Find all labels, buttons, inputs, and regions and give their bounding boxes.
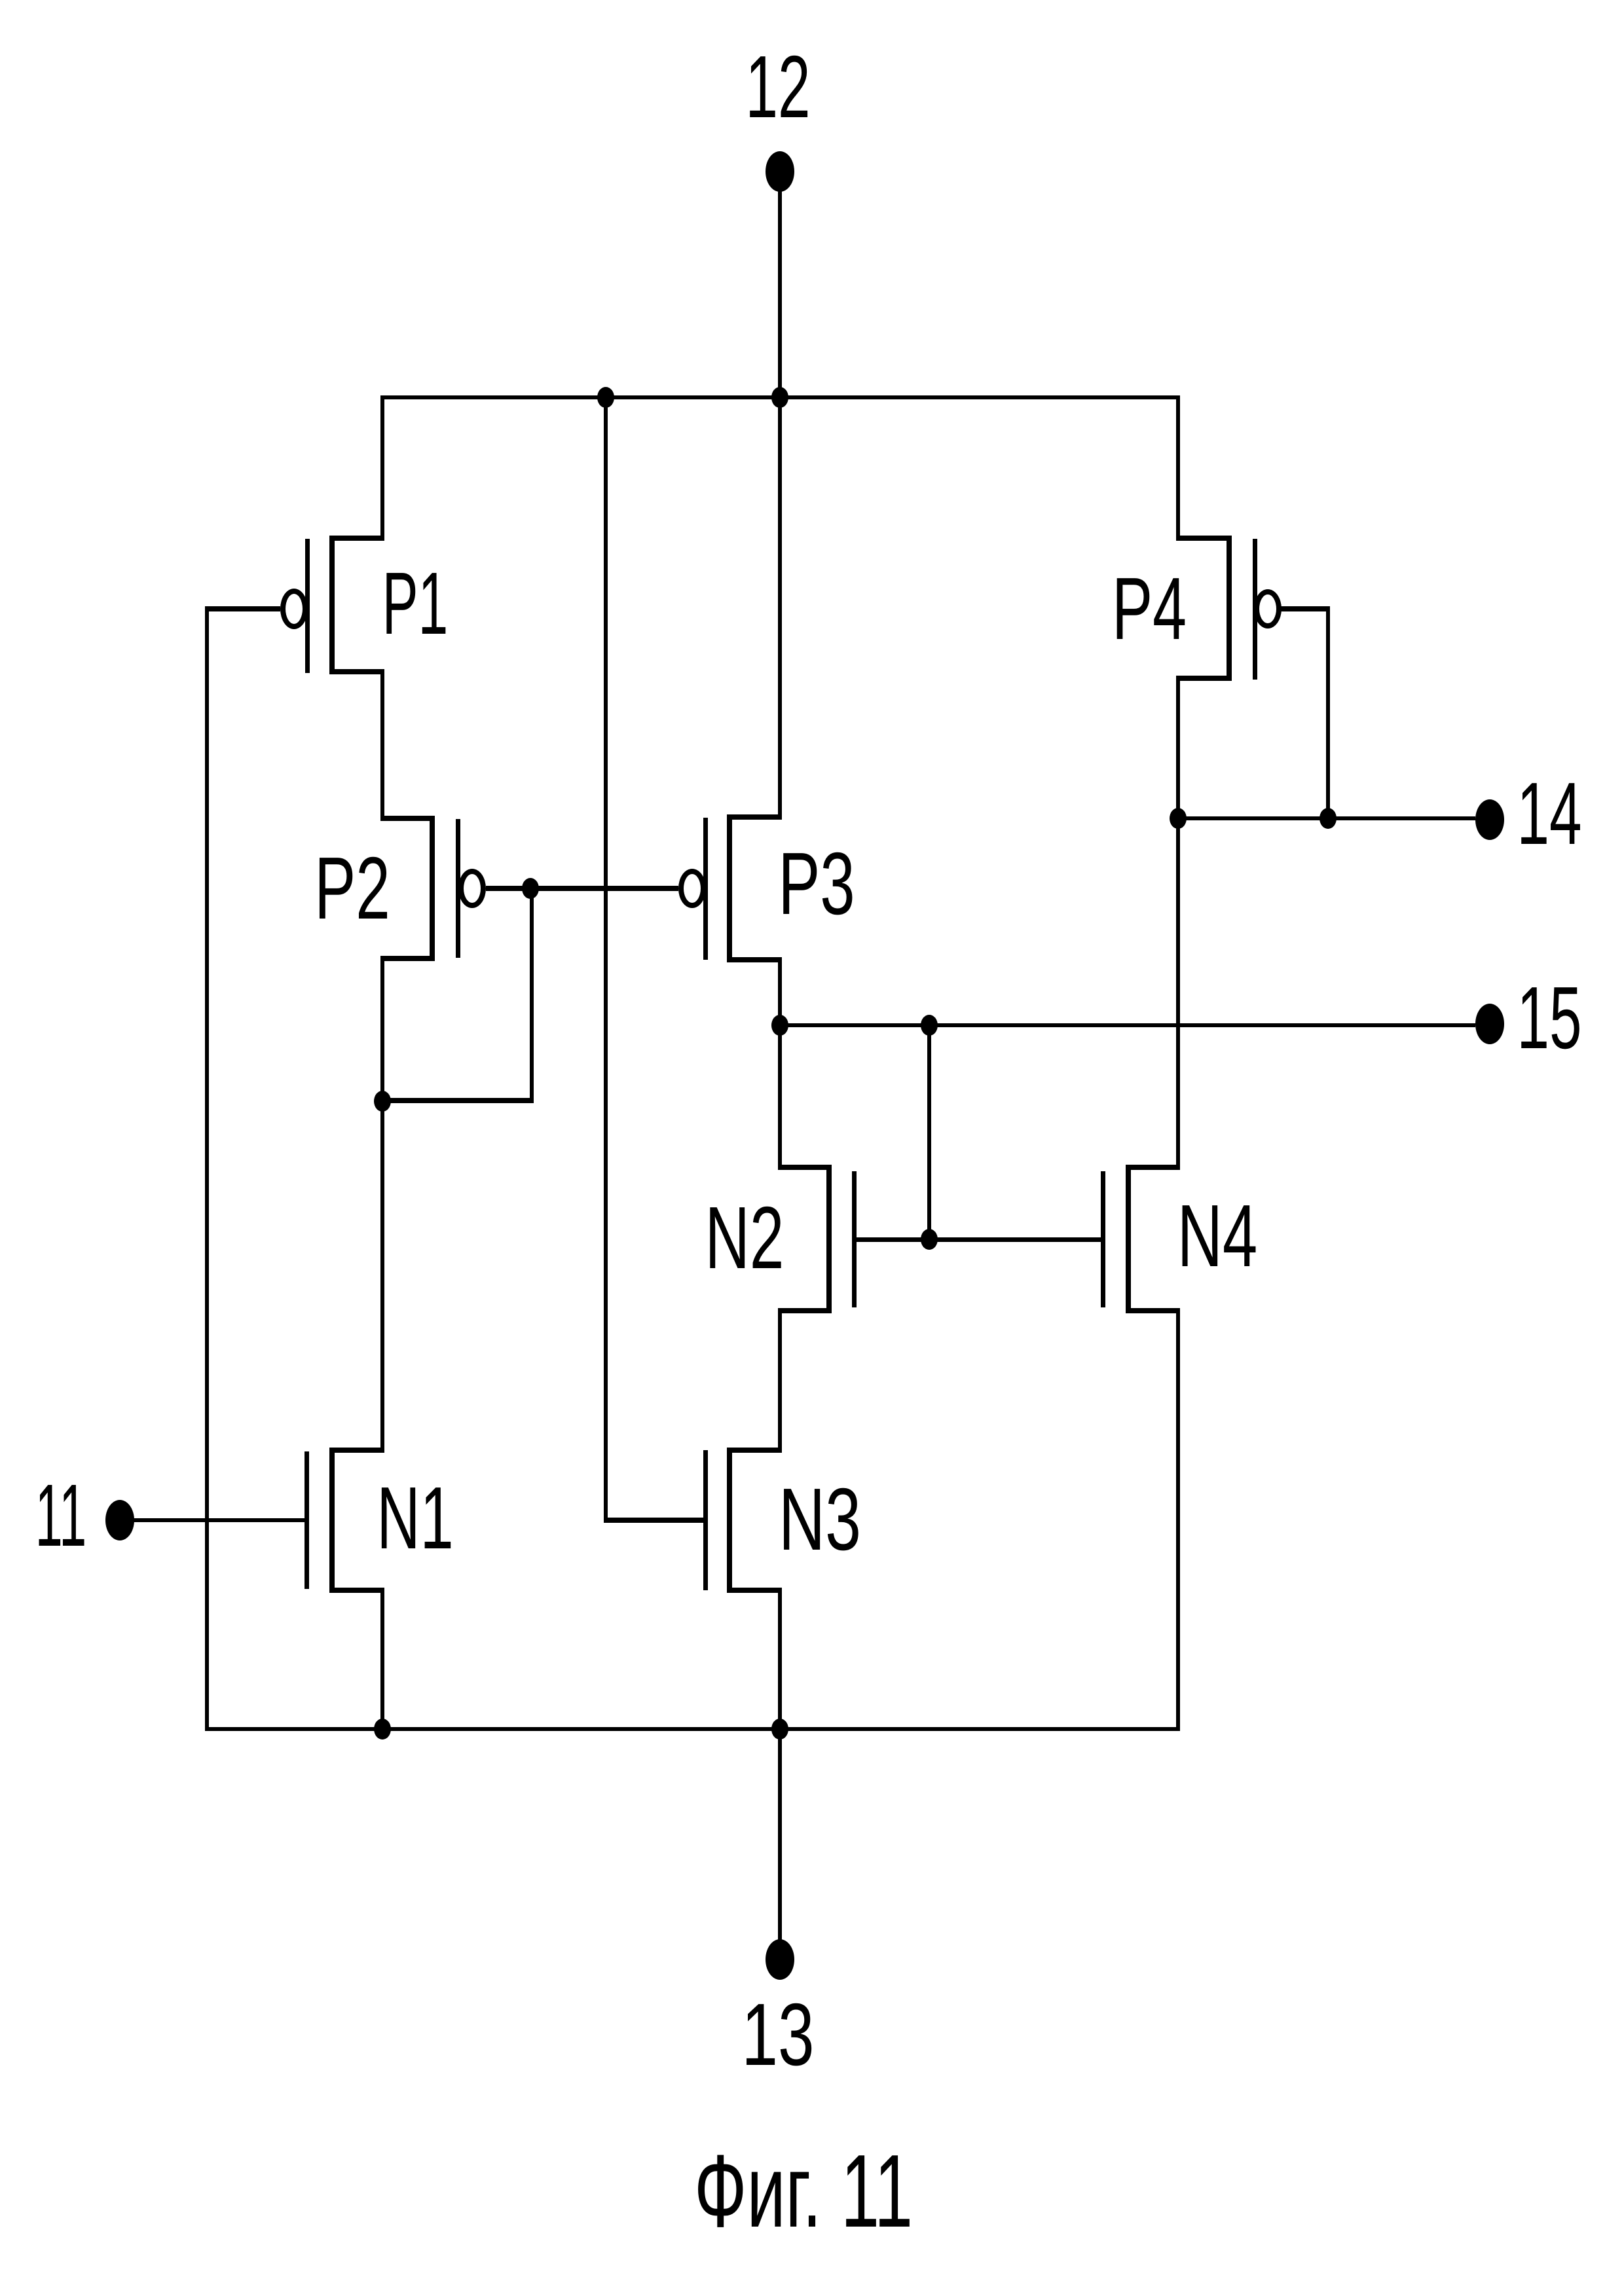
wire P3 drain to N2 drain (778, 1023, 782, 1169)
transistor N1 (329, 1448, 335, 1593)
wire N2 source to N3 drain (778, 1308, 782, 1453)
P2 label (314, 844, 390, 932)
wire 11 to N1 gate (120, 1518, 307, 1522)
wire left outer vertical (205, 607, 209, 1731)
wire P1 drain to P2 source (380, 669, 384, 818)
node junction P3 drain / 15 net (771, 1015, 788, 1036)
wire bottom rail (205, 1727, 1180, 1731)
P1 label (382, 559, 449, 647)
node junction P2/N1 drain (374, 1091, 391, 1112)
P4 label (1112, 564, 1187, 653)
wire P1 gate lead (205, 606, 280, 611)
N1 label (377, 1474, 453, 1562)
wire to N3 gate (604, 1518, 705, 1523)
terminal 13 dot (766, 1939, 794, 1980)
wire N2-N4 gate wire (855, 1237, 1103, 1242)
node junction top rail x1191 (771, 387, 788, 408)
wire N4 source to rail corner (1176, 1308, 1180, 1731)
wire 12 stem (778, 172, 782, 399)
wire rail to P3 source (778, 395, 782, 820)
transistor N4 (1126, 1165, 1131, 1313)
node junction gate wire (921, 1229, 938, 1250)
node 13 label (741, 1990, 814, 2079)
wire node down to N1 drain (380, 1099, 384, 1450)
transistor N2 (826, 1165, 832, 1313)
terminal 14 dot (1475, 799, 1504, 840)
node junction gate net (522, 878, 539, 899)
node 11 label (35, 1471, 86, 1559)
N4 label (1177, 1192, 1258, 1280)
N3 label (779, 1475, 861, 1563)
node junction rail x1191 (771, 1719, 788, 1740)
node junction rail x584 (374, 1719, 391, 1740)
wire 15 net (778, 1023, 1475, 1027)
wire rail to terminal 13 (778, 1727, 782, 1959)
wire long vertical x925 (604, 395, 608, 1522)
terminal 15 dot (1475, 1004, 1504, 1044)
wire P4 gate lead (1281, 606, 1330, 611)
node junction 14 net x2028 (1319, 808, 1337, 829)
node 15 label (1517, 974, 1581, 1062)
transistor N3 (727, 1448, 732, 1593)
node junction 14 net x1799 (1170, 808, 1187, 829)
wire 14 net (1176, 816, 1475, 820)
wire P2 drain down (380, 956, 384, 1103)
node 12 label (745, 43, 810, 131)
wire top rail (380, 395, 1180, 399)
wire N3 source to rail (778, 1588, 782, 1731)
node junction 15 net x1419 (921, 1015, 938, 1036)
wire P2 gate to P3 gate (486, 886, 678, 891)
caption Фиг. 11 (694, 2140, 913, 2243)
P3 label (778, 839, 855, 928)
terminal 12 dot (766, 151, 794, 192)
wire P3 drain down (778, 957, 782, 1027)
transistor P2 (430, 816, 435, 961)
N2 label (705, 1194, 784, 1282)
node junction top rail x925 (597, 387, 614, 408)
node 14 label (1517, 769, 1581, 858)
wire node to gate-net vertical (380, 1098, 534, 1103)
wire P4 drain down to 14 node (1176, 676, 1180, 820)
transistor P3 (727, 814, 732, 962)
wire N4 drain up to 14 node (1176, 818, 1180, 1170)
wire 15 net down to N2/N4 gates (927, 1023, 931, 1241)
wire rail to P1 source (380, 395, 384, 541)
wire rail corner to P4 source (1176, 395, 1180, 541)
wire P4 gate down to 14 net (1326, 607, 1330, 820)
transistor P1 (329, 536, 335, 674)
wire gate net down (530, 886, 534, 1103)
terminal 11 dot (105, 1500, 134, 1540)
wire N1 source to rail (380, 1588, 384, 1731)
transistor P4 (1227, 536, 1232, 681)
